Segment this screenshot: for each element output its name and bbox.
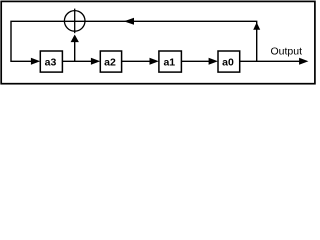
svg-text:a1: a1: [163, 57, 175, 69]
svg-text:a3: a3: [45, 57, 57, 69]
svg-text:Output: Output: [271, 46, 303, 58]
svg-text:a2: a2: [104, 57, 116, 69]
svg-text:a0: a0: [222, 57, 234, 69]
